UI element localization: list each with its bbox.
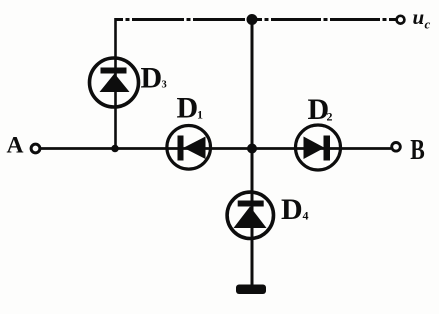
svg-text:4: 4 [303,209,309,223]
svg-text:3: 3 [162,79,167,90]
svg-text:c: c [425,17,431,32]
svg-text:D: D [177,92,199,125]
svg-text:B: B [410,134,425,166]
svg-text:u: u [413,5,425,29]
svg-text:A: A [7,133,24,159]
svg-text:D: D [281,193,303,226]
svg-text:D: D [141,62,163,95]
svg-text:2: 2 [327,110,333,124]
svg-text:1: 1 [197,108,203,122]
